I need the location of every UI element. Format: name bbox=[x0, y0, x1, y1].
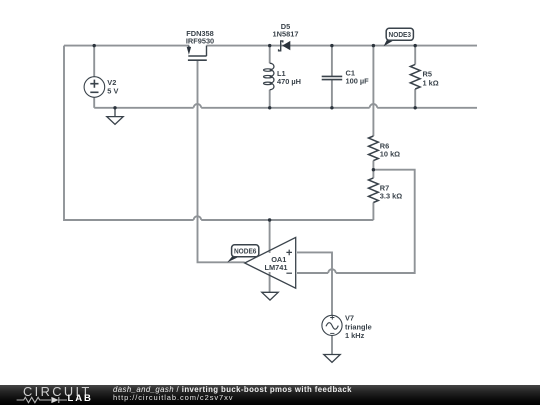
ground at op-amp bbox=[262, 292, 278, 300]
junction dot op-amp V+ on y220 wire bbox=[268, 218, 271, 221]
svg-text:470 µH: 470 µH bbox=[277, 77, 301, 86]
svg-text:1 kHz: 1 kHz bbox=[345, 331, 365, 340]
svg-text:10 kΩ: 10 kΩ bbox=[380, 150, 400, 159]
svg-text:3.3 kΩ: 3.3 kΩ bbox=[380, 192, 402, 201]
wire divider junction to op-amp minus input bbox=[297, 170, 415, 273]
wire hop bottom rail over gate line bbox=[194, 104, 202, 108]
op-amp OA1 LM741 bbox=[245, 237, 296, 288]
junction dot top rail at feedback bbox=[372, 44, 375, 47]
svg-text:NODE3: NODE3 bbox=[389, 30, 412, 39]
wire top rail left bbox=[64, 45, 189, 47]
wire L1 bottom lead bbox=[269, 90, 271, 108]
svg-text:V7: V7 bbox=[345, 314, 354, 323]
svg-text:5 V: 5 V bbox=[107, 87, 118, 96]
svg-text:1 kΩ: 1 kΩ bbox=[423, 78, 439, 87]
ground at V2 bbox=[107, 108, 123, 125]
wire hop over gate line at y220 bbox=[194, 216, 202, 220]
junction dot bottom rail at L1 bbox=[268, 106, 271, 109]
junction dot bottom rail at ground bbox=[113, 106, 116, 109]
wire feedback from NODE3 down to R6 bbox=[372, 46, 374, 136]
resistor R5 1k bbox=[410, 64, 438, 89]
wire V2 top lead bbox=[93, 46, 95, 77]
wire C1 bottom lead bbox=[331, 80, 333, 108]
voltage source V2 5V bbox=[84, 77, 118, 98]
node NODE6 label bbox=[227, 245, 259, 263]
inductor L1 470uH bbox=[264, 63, 301, 90]
wire L1 top lead bbox=[269, 46, 271, 64]
node NODE3 label bbox=[384, 28, 414, 46]
capacitor C1 100uF bbox=[322, 69, 369, 86]
transistor Q1 PMOS FDN358/IRF9530 bbox=[186, 29, 214, 60]
wire bottom rail bbox=[94, 107, 477, 109]
wire op-amp V+ power pin bbox=[269, 220, 271, 253]
CircuitLab logo text CIRCUIT bbox=[23, 387, 92, 396]
wire C1 top lead bbox=[331, 46, 333, 77]
junction dot top rail at V2 bbox=[93, 44, 96, 47]
wire hop bottom rail over feedback line bbox=[370, 104, 378, 108]
svg-text:100 µF: 100 µF bbox=[346, 77, 370, 86]
footer bar bbox=[0, 385, 540, 405]
wire hop minus wire over V7 line bbox=[328, 269, 336, 273]
wire top rail right bbox=[207, 45, 478, 47]
svg-text:R5: R5 bbox=[423, 70, 432, 79]
junction dot top rail at L1 bbox=[268, 44, 271, 47]
junction dot top rail at R5 bbox=[414, 44, 417, 47]
ground at V7 bbox=[324, 355, 340, 363]
resistor R6 10k bbox=[369, 136, 401, 161]
junction dot bottom rail at C1 bbox=[330, 106, 333, 109]
wire V7 ground stub bbox=[331, 335, 333, 354]
wire op-amp V- power pin bbox=[269, 272, 271, 292]
junction dot top rail at C1 bbox=[330, 44, 333, 47]
svg-text:NODE6: NODE6 bbox=[234, 247, 257, 256]
wire gate line from transistor to op-amp output bbox=[198, 60, 245, 262]
svg-text:1N5817: 1N5817 bbox=[273, 30, 299, 39]
wire R7 bottom lead bbox=[372, 203, 374, 221]
wire R5 top lead bbox=[414, 46, 416, 65]
diode D5 1N5817 bbox=[273, 22, 299, 51]
footer url bbox=[113, 394, 233, 402]
footer title bbox=[113, 386, 352, 394]
junction dot bottom rail at R5 bbox=[414, 106, 417, 109]
wire R6-R7 junction link bbox=[372, 161, 374, 178]
resistor R7 3.3k bbox=[369, 178, 403, 203]
svg-text:LM741: LM741 bbox=[264, 263, 287, 272]
voltage source V7 triangle 1kHz bbox=[322, 314, 372, 341]
CircuitLab logo squiggle (resistor + diode) bbox=[14, 396, 70, 404]
wire left branch down and across to R7 bottom bbox=[64, 46, 373, 220]
wire op-amp plus input to V7 bbox=[297, 252, 332, 315]
junction dot R6-R7 divider bbox=[372, 168, 375, 171]
wire V2 bottom lead bbox=[93, 97, 95, 108]
wire R5 bottom lead bbox=[414, 89, 416, 108]
svg-text:IRF9530: IRF9530 bbox=[186, 37, 214, 46]
